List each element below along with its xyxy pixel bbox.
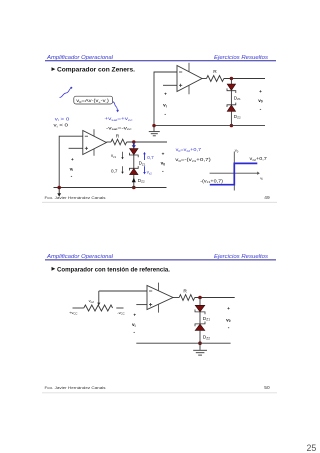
wire D_Z1 to D_Z2 slide 2 (199, 312, 201, 324)
svg-text:+vCC: +vCC (69, 310, 77, 316)
node F junction dot (198, 341, 202, 345)
wire D_Z1 to D_Z2 lower (133, 155, 135, 168)
svg-text:-: - (162, 169, 164, 175)
svg-text:49: 49 (264, 195, 270, 201)
svg-text:v0=Av·(v+-v-): v0=Av·(v+-v-) (76, 98, 109, 104)
formula box vo=Av(v+ - v-) (74, 96, 113, 104)
svg-text:-: - (71, 174, 73, 180)
zener D_Z2 lower circuit (129, 166, 138, 187)
zener D_Z2 slide 2 (195, 322, 205, 344)
svg-text:-(vz1+0,7): -(vz1+0,7) (200, 178, 223, 184)
wire node C to vo+ lower (127, 141, 167, 143)
junction dot U1 ground (152, 124, 155, 127)
label vi source lower circuit (70, 157, 74, 180)
node A junction dot (230, 77, 233, 80)
svg-text:-vsat=-vcc: -vsat=-vcc (106, 125, 132, 131)
node C junction dot (132, 140, 135, 143)
resistor R1 (207, 76, 224, 82)
potentiometer P1 body (73, 305, 124, 311)
graph blue transfer curve (210, 163, 257, 184)
wire U3 output (173, 297, 179, 299)
zener D_Z1 lower circuit (129, 142, 138, 157)
resistor R3 (179, 295, 195, 301)
svg-text:vi: vi (163, 103, 167, 109)
node D junction dot (132, 186, 136, 190)
wire D_Z1 to D_Z2 top circuit (230, 91, 232, 105)
graph horizontal axis vi (210, 172, 260, 175)
svg-text:vi: vi (260, 175, 263, 181)
svg-text:v0=-(vz1+0,7): v0=-(vz1+0,7) (175, 157, 211, 163)
svg-text:+: + (259, 89, 262, 94)
svg-text:R: R (213, 69, 217, 75)
svg-text:50: 50 (264, 385, 270, 391)
svg-text:Fco. Javier Hernández Canals: Fco. Javier Hernández Canals (45, 386, 106, 390)
wire U2 output (106, 141, 111, 143)
svg-text:-: - (228, 325, 230, 331)
svg-text:vi < 0: vi < 0 (54, 123, 69, 129)
svg-text:+: + (71, 157, 74, 162)
zener D_Z2 top circuit (227, 103, 236, 126)
wire node E to vo+ slide 2 (195, 297, 235, 299)
svg-text:vz2: vz2 (147, 170, 152, 176)
blue arrow 0,7 up (143, 152, 146, 160)
wire U1 minus input to ground rail (154, 72, 177, 126)
svg-text:R: R (183, 288, 187, 294)
wire wiper to U3 minus input (99, 290, 147, 292)
svg-text:25: 25 (307, 443, 317, 453)
svg-text:Amplificador Operacional: Amplificador Operacional (46, 55, 114, 61)
svg-text:Ejercicios Resueltos: Ejercicios Resueltos (214, 55, 268, 61)
ground rail top circuit (154, 125, 265, 127)
svg-text:vi > 0: vi > 0 (55, 116, 70, 122)
svg-text:-: - (260, 107, 262, 113)
ground symbol slide 2 (193, 343, 207, 355)
svg-text:-vCC: -vCC (117, 310, 124, 316)
black current arrow above ground rail (132, 178, 136, 183)
svg-text:v0: v0 (258, 98, 263, 104)
zener D_Z1 top circuit (227, 79, 236, 94)
svg-text:DZ2: DZ2 (203, 335, 210, 341)
graph vertical axis vo (233, 152, 235, 191)
label vi source slide 2 (132, 312, 136, 335)
op-amp U2 lower circuit (83, 129, 107, 156)
svg-text:0,7: 0,7 (111, 168, 118, 173)
svg-text:-: - (164, 111, 166, 117)
label vo lower circuit (161, 152, 166, 175)
node B junction dot (230, 124, 233, 127)
label vo top circuit (258, 89, 263, 112)
potentiometer wiper arrow (97, 291, 100, 305)
wire U2 plus input (69, 147, 83, 149)
svg-text:v0: v0 (235, 148, 239, 154)
squiggle arrow left of formula box (60, 87, 73, 98)
squiggle arrow right of formula box (113, 102, 119, 113)
svg-text:v0: v0 (226, 317, 231, 323)
svg-text:v0=vz2+0,7: v0=vz2+0,7 (176, 147, 202, 153)
svg-text:DZ2: DZ2 (234, 114, 241, 120)
wire U2 minus input to ground rail (59, 136, 83, 187)
wire U3 plus input (136, 304, 147, 306)
slide 2 bullet marker (52, 267, 56, 271)
svg-text:+: + (133, 312, 136, 317)
svg-text:+: + (164, 92, 167, 97)
slide 1 bullet marker (52, 67, 56, 71)
svg-text:-: - (133, 330, 135, 336)
label vo slide 2 (226, 306, 231, 331)
svg-text:DZ1: DZ1 (139, 161, 146, 167)
resistor R2 (111, 139, 127, 145)
slide 1 header rule (45, 60, 276, 62)
svg-text:Comparador con tensión de refe: Comparador con tensión de referencia. (57, 266, 170, 273)
slide 2 header rule (45, 259, 276, 261)
svg-text:DZ1: DZ1 (234, 95, 241, 101)
svg-text:vref: vref (89, 298, 94, 304)
svg-text:DZ1: DZ1 (203, 316, 210, 322)
wire U1 output (202, 78, 207, 80)
svg-text:Fco. Javier Hernández Canals: Fco. Javier Hernández Canals (45, 196, 106, 200)
svg-text:+vsat=+vcc: +vsat=+vcc (104, 116, 133, 122)
svg-text:vz1: vz1 (111, 153, 116, 159)
slide 1 bottom edge (42, 201, 277, 203)
svg-text:vi: vi (132, 322, 136, 328)
arrow vz1 down (121, 152, 123, 160)
svg-text:vi: vi (70, 166, 74, 172)
svg-text:vz2+0,7: vz2+0,7 (250, 156, 268, 162)
svg-text:0,7: 0,7 (147, 155, 154, 160)
op-amp U3 (147, 283, 173, 313)
svg-text:+: + (227, 306, 230, 311)
svg-text:+: + (162, 152, 165, 157)
svg-text:v0: v0 (161, 161, 166, 167)
slide 2 bottom edge (42, 392, 277, 394)
op-amp U1 (177, 63, 202, 95)
junction dot U2 ground (57, 186, 61, 190)
arrow 0,7 down (121, 166, 123, 174)
wire R1 to vo+ terminal (224, 78, 265, 80)
node E junction dot (198, 296, 202, 300)
ground arrow below rail (57, 188, 61, 197)
ground rail slide 2 (136, 342, 230, 344)
zener D_Z1 slide 2 (195, 298, 205, 315)
ground rail lower circuit (54, 187, 167, 189)
svg-text:DZ2: DZ2 (138, 178, 145, 184)
svg-text:Comparador con Zeners.: Comparador con Zeners. (57, 67, 135, 74)
blue current arrow at node C (132, 143, 136, 149)
ground symbol top circuit (149, 126, 160, 136)
svg-text:R: R (116, 133, 120, 139)
label vi source top circuit (163, 92, 167, 118)
blue arrow vz2 down (143, 166, 146, 174)
svg-text:Ejercicios Resueltos: Ejercicios Resueltos (214, 254, 268, 260)
svg-text:Amplificador Operacional: Amplificador Operacional (46, 254, 114, 260)
wire U1 plus input (163, 84, 177, 86)
